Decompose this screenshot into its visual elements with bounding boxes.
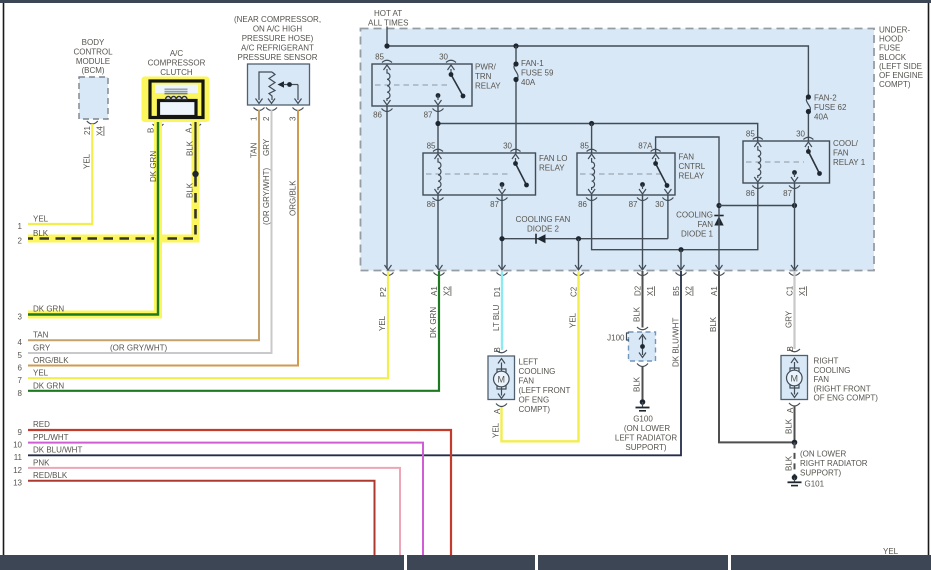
component A/C COMPRESSOR CLUTCH — [142, 49, 210, 133]
diode CF DIODE 2 — [499, 215, 668, 244]
svg-text:RELAY: RELAY — [539, 164, 565, 173]
page left border — [3, 3, 5, 555]
wire PNK row 12 — [13, 458, 400, 555]
svg-text:BLK: BLK — [633, 306, 642, 322]
svg-text:FUSE 62: FUSE 62 — [814, 103, 847, 112]
svg-text:RIGHT: RIGHT — [814, 357, 839, 366]
svg-text:RELAY: RELAY — [679, 172, 705, 181]
svg-text:8: 8 — [18, 389, 23, 398]
svg-text:12: 12 — [13, 466, 22, 475]
svg-text:UNDER-: UNDER- — [879, 26, 910, 35]
fuse FAN-2 FUSE 62 40A — [806, 94, 847, 142]
svg-text:2: 2 — [262, 116, 271, 121]
svg-text:COOLING: COOLING — [519, 367, 556, 376]
svg-text:DK GRN: DK GRN — [429, 307, 438, 338]
pin labels below fuse block — [379, 285, 807, 297]
wire RED row 9 — [18, 420, 451, 555]
svg-text:RELAY 1: RELAY 1 — [833, 158, 866, 167]
svg-text:BLK: BLK — [785, 418, 794, 434]
relay U3 FAN CNTRL RELAY — [577, 142, 706, 210]
wire diode1 node to A1 pin — [716, 203, 797, 269]
svg-text:ORG/BLK: ORG/BLK — [33, 356, 69, 365]
bottom chrome bar — [0, 555, 931, 570]
svg-text:COOLING FAN: COOLING FAN — [516, 215, 571, 224]
svg-text:(RIGHT FRONT: (RIGHT FRONT — [814, 384, 871, 393]
svg-text:B: B — [493, 347, 502, 352]
svg-text:RED: RED — [33, 420, 50, 429]
svg-text:DK BLU/WHT: DK BLU/WHT — [672, 318, 681, 367]
svg-text:CONTROL: CONTROL — [73, 47, 113, 56]
row 8 DK GRN label — [18, 381, 65, 398]
svg-text:BLK: BLK — [633, 376, 642, 392]
svg-text:11: 11 — [14, 453, 23, 462]
svg-text:DK GRN: DK GRN — [33, 381, 64, 390]
svg-text:A/C: A/C — [170, 49, 184, 58]
relay U1 PWR/TRN RELAY — [372, 53, 501, 120]
svg-text:GRY: GRY — [33, 344, 51, 353]
svg-text:BLK: BLK — [33, 229, 49, 238]
wire LT BLU D1 to left fan B — [492, 271, 502, 350]
svg-text:BLOCK: BLOCK — [879, 53, 907, 62]
svg-text:DK GRN: DK GRN — [33, 305, 64, 314]
wire GRY sensor 2 to row 5 — [18, 110, 272, 360]
svg-text:GRY: GRY — [262, 138, 271, 156]
wire C2 branch — [578, 239, 580, 269]
motor M1 LEFT COOLING FAN — [488, 347, 570, 414]
svg-text:30: 30 — [796, 130, 805, 139]
svg-text:85: 85 — [746, 130, 755, 139]
svg-text:LEFT RADIATOR: LEFT RADIATOR — [615, 434, 677, 443]
svg-text:YEL: YEL — [569, 312, 578, 328]
svg-text:OF ENGINE: OF ENGINE — [879, 71, 923, 80]
svg-text:13: 13 — [13, 479, 22, 488]
svg-text:DIODE 1: DIODE 1 — [681, 230, 714, 239]
svg-text:HOT AT: HOT AT — [374, 9, 402, 18]
diode CF DIODE 1 — [676, 211, 724, 239]
wire PWR/TRN 86 to P2 — [386, 106, 388, 269]
wire FAN CNTRL 87 to D2 — [642, 195, 644, 269]
svg-text:PWR/: PWR/ — [475, 63, 497, 72]
svg-text:X2: X2 — [443, 286, 452, 296]
wire BLK D2 to J100 — [633, 271, 643, 328]
svg-text:PNK: PNK — [33, 458, 50, 467]
svg-text:7: 7 — [18, 376, 23, 385]
svg-text:(OR GRY/WHT): (OR GRY/WHT) — [110, 344, 168, 353]
svg-text:OF ENG COMPT): OF ENG COMPT) — [814, 394, 879, 403]
svg-text:5: 5 — [18, 351, 23, 360]
svg-text:FAN: FAN — [697, 220, 713, 229]
svg-text:87: 87 — [783, 189, 792, 198]
svg-text:30: 30 — [655, 200, 664, 209]
wire BLK clutch A solid to splice — [186, 122, 199, 177]
svg-text:3: 3 — [289, 116, 298, 121]
svg-text:87: 87 — [490, 200, 499, 209]
svg-text:PRESSURE SENSOR: PRESSURE SENSOR — [237, 53, 317, 62]
svg-text:10: 10 — [13, 441, 22, 450]
svg-text:YEL: YEL — [33, 369, 49, 378]
svg-text:BLK: BLK — [186, 140, 195, 156]
svg-text:M: M — [498, 374, 506, 384]
wire PWR/TRN 87 feed line to relays 85 — [435, 106, 757, 153]
svg-text:86: 86 — [427, 200, 436, 209]
svg-text:CLUTCH: CLUTCH — [160, 68, 193, 77]
svg-text:TAN: TAN — [250, 142, 259, 158]
svg-text:BODY: BODY — [82, 38, 105, 47]
svg-text:1: 1 — [250, 116, 259, 121]
wire FAN LO 86 to A1 — [437, 195, 439, 269]
wire FAN CNTRL 86 over to COOL/FAN 86 — [592, 183, 758, 269]
svg-text:GRY: GRY — [785, 310, 794, 328]
svg-text:BLK: BLK — [785, 455, 794, 471]
svg-text:LT BLU: LT BLU — [492, 304, 501, 331]
svg-text:3: 3 — [18, 313, 23, 322]
wire BLK dashed to G101 — [785, 442, 795, 475]
wire YEL C2 to left fan A — [492, 271, 579, 441]
svg-text:YEL: YEL — [33, 215, 49, 224]
relay U2 FAN LO RELAY — [423, 142, 567, 210]
ground G101 — [788, 450, 868, 489]
svg-text:P2: P2 — [379, 287, 388, 297]
svg-text:DK BLU/WHT: DK BLU/WHT — [33, 446, 82, 455]
svg-text:COOLING: COOLING — [814, 366, 851, 375]
svg-text:C1: C1 — [786, 285, 795, 296]
svg-text:(BCM): (BCM) — [81, 66, 104, 75]
svg-text:SUPPORT): SUPPORT) — [800, 469, 842, 478]
fuse FAN-1 FUSE 59 40A — [513, 46, 554, 153]
svg-text:FAN: FAN — [833, 149, 849, 158]
svg-text:2: 2 — [18, 237, 23, 246]
svg-text:YEL: YEL — [378, 315, 387, 331]
svg-text:FAN-2: FAN-2 — [814, 94, 837, 103]
svg-text:HOOD: HOOD — [879, 35, 903, 44]
wire COOL/FAN 87 to C1 — [794, 183, 796, 269]
svg-text:TRN: TRN — [475, 72, 492, 81]
svg-text:D1: D1 — [493, 286, 502, 297]
svg-text:A: A — [493, 408, 502, 414]
wire YEL P2 to row 7 — [28, 271, 388, 378]
wire PPL/WHT row 10 — [13, 433, 423, 555]
module BCM — [73, 38, 113, 136]
svg-text:(LEFT FRONT: (LEFT FRONT — [519, 386, 571, 395]
svg-text:A/C REFRIGERANT: A/C REFRIGERANT — [241, 44, 314, 53]
svg-text:86: 86 — [373, 111, 382, 120]
svg-text:OF ENG: OF ENG — [519, 396, 550, 405]
svg-text:86: 86 — [578, 200, 587, 209]
svg-text:COMPT): COMPT) — [879, 80, 911, 89]
svg-text:ON A/C HIGH: ON A/C HIGH — [253, 25, 303, 34]
node HOT AT ALL TIMES — [368, 9, 408, 46]
svg-text:FAN: FAN — [519, 377, 535, 386]
svg-text:30: 30 — [503, 142, 512, 151]
svg-text:X4: X4 — [96, 126, 105, 136]
svg-text:FUSE: FUSE — [879, 44, 900, 53]
svg-text:21: 21 — [83, 126, 92, 135]
svg-text:6: 6 — [18, 364, 23, 373]
svg-text:FAN LO: FAN LO — [539, 154, 567, 163]
svg-text:BLK: BLK — [709, 316, 718, 332]
ground G100 — [615, 399, 677, 452]
svg-text:FAN: FAN — [814, 375, 830, 384]
svg-text:87: 87 — [424, 111, 433, 120]
svg-text:BLK: BLK — [186, 182, 195, 198]
svg-text:DIODE 2: DIODE 2 — [527, 225, 560, 234]
svg-text:FUSE 59: FUSE 59 — [521, 69, 554, 78]
svg-text:40A: 40A — [814, 113, 829, 122]
wire GRY C1 to right fan B — [785, 271, 795, 349]
svg-text:COMPT): COMPT) — [519, 405, 551, 414]
wire BLK dashed splice to row 2 — [18, 174, 196, 246]
svg-text:TAN: TAN — [33, 331, 49, 340]
svg-text:85: 85 — [427, 142, 436, 151]
svg-text:C2: C2 — [570, 286, 579, 297]
svg-text:J100: J100 — [607, 334, 625, 343]
wire FAN LO 87 to D1 — [501, 195, 503, 269]
svg-text:CNTRL: CNTRL — [679, 162, 706, 171]
svg-text:A1: A1 — [710, 286, 719, 296]
svg-text:RED/BLK: RED/BLK — [33, 471, 68, 480]
wire FAN CNTRL 87A up over to diode 1 — [656, 137, 719, 206]
svg-text:SUPPORT): SUPPORT) — [625, 443, 667, 452]
svg-text:30: 30 — [439, 53, 448, 62]
svg-text:A1: A1 — [430, 286, 439, 296]
wire YEL BCM 21 to row 1 — [18, 124, 93, 231]
svg-text:COOL/: COOL/ — [833, 139, 859, 148]
svg-text:85: 85 — [580, 142, 589, 151]
svg-text:G101: G101 — [805, 480, 825, 489]
svg-text:YEL: YEL — [82, 153, 91, 169]
row 7 YEL label — [18, 369, 49, 386]
wire BLK A1 to right fan ground node — [709, 271, 795, 442]
svg-text:D2: D2 — [634, 285, 643, 296]
svg-text:PPL/WHT: PPL/WHT — [33, 433, 69, 442]
svg-text:ALL TIMES: ALL TIMES — [368, 19, 408, 28]
svg-text:LEFT: LEFT — [519, 358, 539, 367]
svg-text:FAN-1: FAN-1 — [521, 59, 544, 68]
svg-text:86: 86 — [746, 189, 755, 198]
wire ORG/BLK sensor 3 to row 6 — [18, 110, 298, 373]
svg-text:1: 1 — [18, 222, 23, 231]
wire DK BLU/WHT B5 to row 11 — [28, 271, 681, 455]
underhood fuse block — [361, 26, 924, 271]
wire top feed bus — [384, 43, 808, 97]
wire BLK J100 to G100 — [633, 366, 643, 400]
relay U4 COOL/FAN RELAY 1 — [743, 130, 866, 199]
svg-text:X1: X1 — [646, 286, 655, 296]
svg-text:9: 9 — [18, 428, 23, 437]
svg-text:4: 4 — [18, 338, 23, 347]
svg-text:87A: 87A — [638, 142, 653, 151]
svg-text:87: 87 — [629, 200, 638, 209]
wire RED/BLK row 13 — [13, 471, 374, 555]
fuse block bottom pin arrows — [383, 265, 801, 276]
svg-text:ORG/BLK: ORG/BLK — [289, 180, 298, 216]
svg-text:DK GRN: DK GRN — [149, 151, 158, 182]
svg-text:PRESSURE HOSE): PRESSURE HOSE) — [242, 34, 314, 43]
svg-text:B: B — [786, 346, 795, 351]
page right border — [928, 3, 930, 555]
connector J100 — [607, 327, 655, 367]
svg-text:X1: X1 — [798, 286, 807, 296]
svg-text:COOLING: COOLING — [676, 211, 713, 220]
wire DK BLU/WHT row 11 label — [14, 446, 83, 463]
svg-text:X2: X2 — [685, 286, 694, 296]
svg-text:COMPRESSOR: COMPRESSOR — [148, 59, 206, 68]
svg-text:B5: B5 — [672, 286, 681, 296]
svg-text:FAN: FAN — [679, 153, 695, 162]
svg-text:M: M — [791, 373, 799, 383]
wire FAN CNTRL 30 down to diode 2 line — [667, 195, 669, 239]
svg-text:(ON LOWER: (ON LOWER — [800, 450, 846, 459]
wire TAN sensor 1 to row 4 — [18, 110, 259, 347]
svg-text:YEL: YEL — [883, 547, 899, 556]
svg-text:(ON LOWER: (ON LOWER — [624, 424, 670, 433]
sensor A/C REFRIGERANT PRESSURE SENSOR — [234, 15, 321, 121]
svg-text:(NEAR COMPRESSOR,: (NEAR COMPRESSOR, — [234, 15, 321, 24]
svg-text:40A: 40A — [521, 78, 536, 87]
wire BLK right fan A to node — [785, 406, 798, 446]
svg-text:(LEFT SIDE: (LEFT SIDE — [879, 62, 922, 71]
svg-text:RIGHT RADIATOR: RIGHT RADIATOR — [800, 459, 868, 468]
wire DK GRN clutch B to row 3 — [18, 122, 158, 322]
motor M2 RIGHT COOLING FAN — [781, 346, 878, 413]
svg-text:G100: G100 — [633, 415, 653, 424]
svg-text:85: 85 — [375, 53, 384, 62]
svg-text:(OR GRY/WHT): (OR GRY/WHT) — [262, 167, 271, 225]
svg-text:MODULE: MODULE — [76, 57, 110, 66]
svg-text:YEL: YEL — [492, 422, 501, 438]
svg-text:RELAY: RELAY — [475, 82, 501, 91]
wire DK GRN A1 to row 8 — [28, 271, 439, 391]
top chrome bar — [0, 0, 931, 3]
